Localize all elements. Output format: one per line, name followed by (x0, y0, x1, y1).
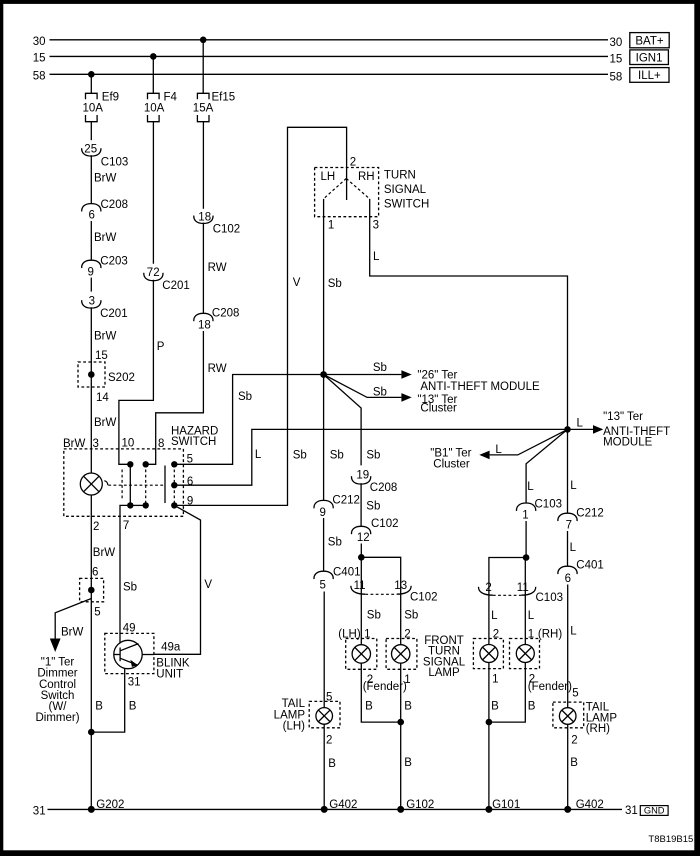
svg-text:6: 6 (92, 567, 98, 579)
svg-text:V: V (204, 579, 212, 591)
svg-text:Sb: Sb (366, 500, 380, 512)
svg-text:P: P (157, 341, 165, 353)
svg-text:3: 3 (89, 295, 95, 307)
svg-text:6: 6 (89, 209, 95, 221)
svg-text:C201: C201 (100, 308, 128, 320)
svg-text:BrW: BrW (63, 438, 86, 450)
svg-text:B: B (404, 701, 412, 713)
svg-text:1: 1 (328, 220, 334, 232)
svg-text:(RH): (RH) (538, 629, 562, 641)
svg-text:L: L (495, 444, 502, 456)
svg-text:L: L (570, 542, 577, 554)
svg-text:B: B (404, 757, 412, 769)
svg-text:Sb: Sb (404, 609, 418, 621)
svg-text:L: L (373, 251, 380, 263)
svg-text:Sb: Sb (373, 362, 387, 374)
svg-text:9: 9 (88, 267, 94, 279)
svg-text:25: 25 (84, 144, 97, 156)
svg-text:(LH): (LH) (283, 720, 306, 732)
svg-text:1: 1 (404, 674, 410, 686)
svg-text:SWITCH: SWITCH (171, 436, 216, 448)
svg-text:Sb: Sb (367, 609, 381, 621)
svg-text:C212: C212 (332, 495, 360, 507)
svg-text:1: 1 (522, 510, 528, 522)
svg-text:Sb: Sb (328, 278, 342, 290)
svg-text:11: 11 (354, 580, 366, 592)
svg-text:BrW: BrW (94, 417, 117, 429)
svg-text:BrW: BrW (93, 547, 116, 559)
svg-text:Sb: Sb (330, 449, 344, 461)
svg-text:Dimmer): Dimmer) (35, 712, 79, 724)
svg-text:"13" Ter: "13" Ter (603, 411, 643, 423)
svg-text:8: 8 (158, 438, 164, 450)
svg-text:TAIL: TAIL (282, 698, 306, 710)
svg-text:15: 15 (95, 350, 108, 362)
svg-text:GND: GND (644, 806, 665, 816)
svg-text:S202: S202 (108, 372, 135, 384)
svg-text:C401: C401 (576, 560, 604, 572)
svg-text:UNIT: UNIT (156, 668, 183, 680)
svg-text:Sb: Sb (328, 537, 342, 549)
svg-text:C102: C102 (371, 518, 399, 530)
svg-text:31: 31 (625, 805, 638, 817)
svg-text:Cluster: Cluster (433, 458, 470, 470)
svg-text:C103: C103 (536, 592, 564, 604)
svg-text:6: 6 (565, 573, 571, 585)
svg-text:C208: C208 (370, 482, 398, 494)
svg-text:Sb: Sb (238, 391, 252, 403)
svg-text:10: 10 (122, 438, 135, 450)
svg-text:2: 2 (350, 157, 356, 169)
svg-text:C208: C208 (101, 199, 129, 211)
svg-text:30: 30 (610, 37, 623, 49)
svg-text:BrW: BrW (94, 172, 117, 184)
svg-text:Sb: Sb (293, 449, 307, 461)
svg-text:(RH): (RH) (586, 723, 610, 735)
svg-text:11: 11 (517, 582, 529, 594)
svg-text:B: B (365, 701, 373, 713)
svg-text:C203: C203 (100, 255, 128, 267)
svg-text:LAMP: LAMP (428, 667, 460, 679)
svg-text:L: L (491, 610, 498, 622)
svg-text:C212: C212 (576, 508, 604, 520)
svg-text:72: 72 (147, 267, 160, 279)
svg-text:6: 6 (187, 476, 193, 488)
svg-text:5: 5 (572, 688, 578, 700)
svg-text:2: 2 (485, 582, 491, 594)
svg-text:L: L (570, 626, 577, 638)
svg-text:Cluster: Cluster (420, 403, 457, 415)
svg-text:T8B19B15: T8B19B15 (648, 834, 693, 845)
svg-text:15: 15 (610, 54, 623, 66)
svg-text:L: L (255, 449, 262, 461)
svg-text:19: 19 (356, 469, 369, 481)
svg-text:58: 58 (610, 72, 623, 84)
svg-text:13: 13 (394, 580, 407, 592)
svg-text:BrW: BrW (94, 232, 117, 244)
svg-text:C401: C401 (333, 567, 361, 579)
svg-text:2: 2 (93, 521, 99, 533)
svg-text:14: 14 (96, 392, 109, 404)
svg-text:C103: C103 (101, 156, 129, 168)
svg-text:L: L (527, 481, 534, 493)
svg-text:(Fender): (Fender) (528, 681, 572, 693)
svg-text:BrW: BrW (94, 331, 117, 343)
svg-text:MODULE: MODULE (603, 436, 653, 448)
svg-text:7: 7 (566, 520, 572, 532)
svg-text:ANTI-THEFT MODULE: ANTI-THEFT MODULE (420, 381, 540, 393)
svg-text:31: 31 (128, 676, 141, 688)
svg-text:49: 49 (123, 622, 136, 634)
svg-text:B: B (570, 757, 578, 769)
svg-text:15: 15 (33, 53, 46, 65)
svg-text:2: 2 (326, 734, 332, 746)
svg-text:F4: F4 (164, 92, 178, 104)
svg-text:RH: RH (358, 171, 375, 183)
svg-text:C201: C201 (162, 280, 190, 292)
svg-text:30: 30 (33, 36, 46, 48)
svg-text:3: 3 (373, 220, 379, 232)
svg-text:5: 5 (187, 453, 193, 465)
svg-text:BrW: BrW (61, 626, 84, 638)
svg-text:10A: 10A (83, 103, 104, 115)
svg-text:"26" Ter: "26" Ter (417, 370, 457, 382)
svg-text:B: B (328, 758, 336, 770)
svg-text:B: B (95, 701, 103, 713)
svg-text:3: 3 (93, 438, 99, 450)
svg-text:Ef9: Ef9 (102, 92, 119, 104)
svg-text:10A: 10A (144, 103, 165, 115)
svg-text:31: 31 (33, 805, 46, 817)
svg-text:C102: C102 (213, 224, 241, 236)
svg-text:ILL+: ILL+ (638, 70, 661, 82)
svg-text:IGN1: IGN1 (636, 53, 663, 65)
svg-text:58: 58 (33, 70, 46, 82)
svg-text:L: L (577, 418, 584, 430)
svg-text:49a: 49a (161, 641, 181, 653)
svg-text:B: B (129, 701, 137, 713)
svg-text:SIGNAL: SIGNAL (384, 184, 427, 196)
svg-text:LH: LH (321, 171, 336, 183)
svg-text:TURN: TURN (384, 170, 416, 182)
svg-text:5: 5 (320, 580, 326, 592)
svg-text:C208: C208 (212, 307, 240, 319)
svg-text:1: 1 (492, 674, 498, 686)
svg-text:9: 9 (320, 507, 326, 519)
svg-text:SWITCH: SWITCH (384, 198, 429, 210)
svg-text:C103: C103 (535, 499, 563, 511)
svg-text:Sb: Sb (366, 449, 380, 461)
svg-text:BAT+: BAT+ (635, 36, 664, 48)
svg-text:7: 7 (123, 520, 129, 532)
svg-text:12: 12 (357, 532, 370, 544)
svg-text:RW: RW (208, 262, 227, 274)
svg-text:Sb: Sb (123, 582, 137, 594)
svg-text:V: V (293, 277, 301, 289)
svg-text:B: B (491, 701, 499, 713)
svg-text:RW: RW (208, 363, 227, 375)
svg-text:2: 2 (571, 734, 577, 746)
svg-text:15A: 15A (193, 103, 214, 115)
svg-text:5: 5 (94, 607, 100, 619)
svg-text:L: L (528, 610, 535, 622)
svg-text:B: B (528, 701, 536, 713)
svg-text:L: L (570, 480, 577, 492)
svg-text:C102: C102 (410, 592, 438, 604)
svg-text:Sb: Sb (373, 386, 387, 398)
svg-text:Ef15: Ef15 (212, 92, 236, 104)
svg-text:18: 18 (198, 320, 211, 332)
